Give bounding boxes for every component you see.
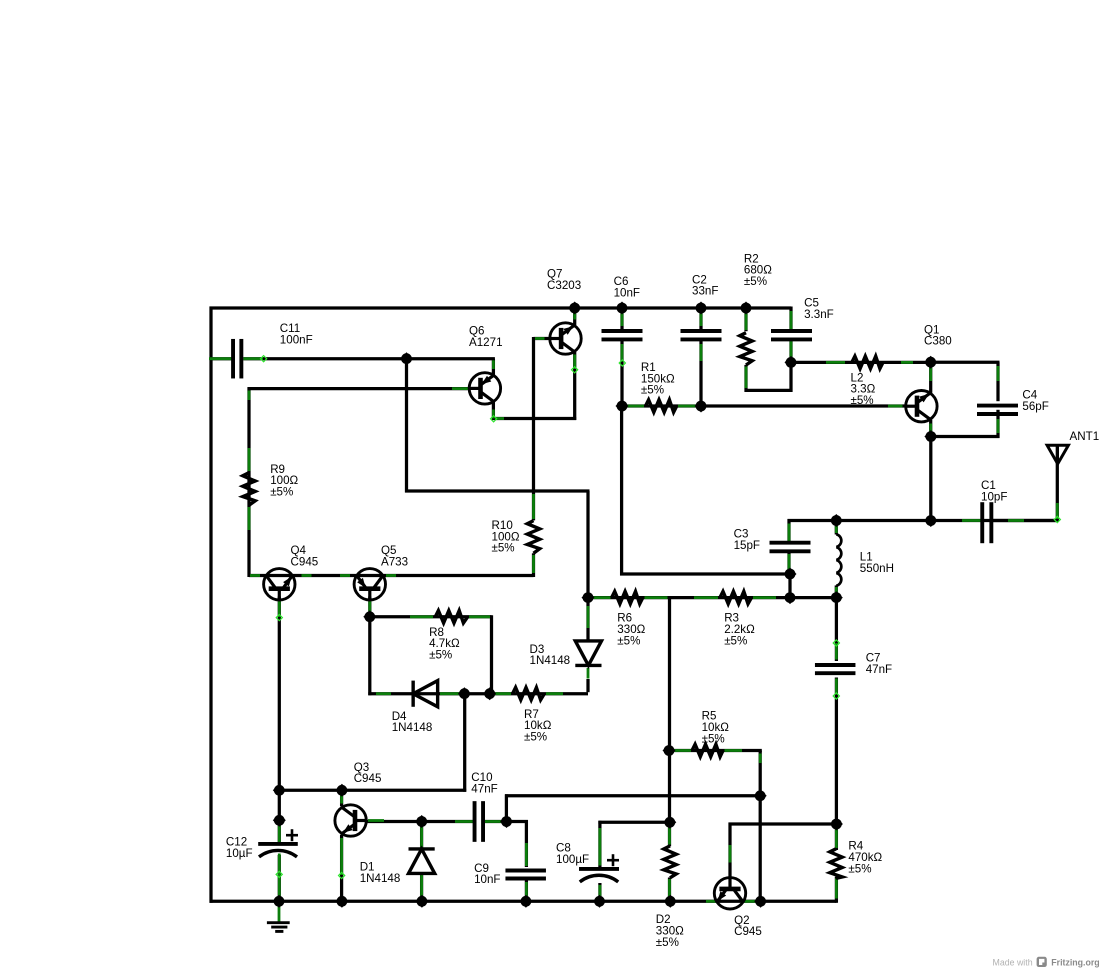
node AA bbox=[273, 814, 286, 827]
wire bbox=[620, 406, 623, 576]
wire bbox=[532, 555, 535, 573]
wire bbox=[535, 337, 545, 340]
wire bbox=[929, 361, 999, 364]
wire bbox=[787, 519, 790, 544]
resistor R4 bbox=[830, 849, 842, 879]
wire bbox=[744, 308, 747, 331]
wire bbox=[622, 404, 906, 407]
wire bbox=[835, 879, 838, 899]
node M bbox=[783, 567, 796, 580]
wire bbox=[787, 552, 790, 576]
wire bbox=[370, 615, 492, 618]
wire bbox=[340, 835, 343, 903]
wire bbox=[668, 878, 671, 903]
node G bbox=[694, 399, 707, 412]
label R4 bbox=[848, 840, 882, 876]
wire bbox=[706, 900, 716, 903]
wire bbox=[835, 829, 838, 848]
wire bbox=[835, 598, 838, 661]
wire bbox=[278, 904, 281, 922]
node S bbox=[483, 687, 496, 700]
wire bbox=[833, 640, 839, 646]
wire bbox=[790, 341, 793, 360]
wire bbox=[788, 574, 791, 599]
wire bbox=[668, 749, 762, 752]
svg-text:1N4148: 1N4148 bbox=[392, 721, 433, 734]
wire bbox=[599, 828, 602, 866]
wire bbox=[1054, 516, 1060, 522]
resistor R7 bbox=[513, 688, 545, 700]
resistor R8 bbox=[435, 611, 467, 623]
node E bbox=[739, 301, 752, 314]
wire bbox=[210, 306, 792, 309]
label C10 bbox=[471, 771, 497, 795]
wire bbox=[276, 871, 282, 877]
label ANT1 bbox=[1070, 430, 1100, 443]
wire bbox=[835, 678, 838, 826]
label R6 bbox=[617, 612, 645, 648]
wire bbox=[386, 574, 396, 577]
wire bbox=[835, 643, 838, 660]
label R8 bbox=[429, 626, 460, 662]
wire bbox=[455, 820, 473, 823]
wire bbox=[248, 507, 251, 530]
wire bbox=[1008, 519, 1024, 522]
label C5 bbox=[804, 297, 834, 321]
svg-text:±5%: ±5% bbox=[617, 634, 640, 647]
wire bbox=[835, 877, 838, 903]
node O bbox=[783, 591, 796, 604]
label Q2 bbox=[734, 914, 762, 938]
wire bbox=[492, 359, 495, 376]
resistor R2 bbox=[740, 333, 752, 365]
wire bbox=[368, 615, 371, 695]
wire bbox=[997, 419, 1000, 433]
wire bbox=[668, 598, 671, 847]
capacitor C6 bbox=[602, 331, 643, 339]
label D2 bbox=[656, 913, 684, 949]
wire bbox=[997, 366, 1000, 381]
wire bbox=[593, 596, 611, 599]
wire bbox=[888, 405, 903, 408]
wire bbox=[248, 387, 470, 390]
wire bbox=[338, 872, 344, 878]
capacitor C2 bbox=[681, 331, 722, 339]
svg-text:550nH: 550nH bbox=[860, 562, 894, 575]
wire bbox=[996, 362, 999, 401]
node P bbox=[830, 591, 843, 604]
node J bbox=[924, 430, 937, 443]
transistor Q5 bbox=[354, 569, 385, 600]
wire bbox=[835, 524, 838, 534]
wire bbox=[759, 751, 762, 903]
node B bbox=[568, 301, 581, 314]
svg-text:±5%: ±5% bbox=[270, 486, 293, 499]
wire bbox=[368, 819, 384, 822]
wire bbox=[621, 312, 624, 326]
svg-text:±5%: ±5% bbox=[702, 732, 725, 745]
label C12 bbox=[226, 836, 253, 860]
svg-text:3.3nF: 3.3nF bbox=[804, 308, 834, 321]
node AF bbox=[593, 895, 606, 908]
label D3 bbox=[530, 643, 571, 667]
wire bbox=[525, 880, 528, 903]
wire bbox=[700, 344, 703, 361]
node AH bbox=[754, 895, 767, 908]
svg-text:10µF: 10µF bbox=[226, 847, 253, 860]
svg-text:±5%: ±5% bbox=[851, 394, 874, 407]
wire bbox=[744, 365, 747, 392]
svg-text:1N4148: 1N4148 bbox=[360, 872, 401, 885]
wire bbox=[490, 416, 496, 422]
wire bbox=[598, 883, 601, 903]
node K bbox=[830, 514, 843, 527]
wire bbox=[420, 822, 423, 851]
wire bbox=[278, 824, 281, 842]
wire bbox=[745, 389, 793, 392]
capacitor C10 bbox=[475, 801, 484, 842]
wire bbox=[996, 410, 999, 438]
inductor L2 (3.3 ohm) bbox=[852, 356, 883, 368]
capacitor C5 bbox=[771, 331, 812, 339]
wire bbox=[209, 307, 212, 903]
wire bbox=[835, 824, 838, 850]
wire bbox=[278, 855, 281, 903]
label R9 bbox=[270, 463, 298, 499]
wire bbox=[620, 340, 623, 408]
svg-text:Made with: Made with bbox=[993, 957, 1033, 967]
node AD bbox=[415, 895, 428, 908]
svg-text:56pF: 56pF bbox=[1022, 400, 1048, 413]
diode D1 bbox=[409, 849, 435, 874]
wire bbox=[210, 900, 837, 903]
wire bbox=[835, 587, 838, 596]
resistor R10 bbox=[527, 521, 539, 554]
svg-text:47nF: 47nF bbox=[866, 663, 892, 676]
capacitor C12 bbox=[258, 829, 298, 857]
wire bbox=[729, 845, 732, 863]
label R7 bbox=[524, 708, 552, 744]
wire bbox=[492, 417, 576, 420]
wire bbox=[586, 598, 589, 641]
wire bbox=[420, 875, 423, 898]
wire bbox=[789, 307, 792, 331]
wire bbox=[493, 692, 512, 695]
node D bbox=[694, 301, 707, 314]
wire bbox=[243, 357, 263, 360]
diode D4 bbox=[413, 681, 438, 707]
wire bbox=[699, 308, 702, 331]
wire bbox=[573, 352, 576, 420]
wire bbox=[668, 828, 671, 845]
wire bbox=[678, 405, 696, 408]
wire bbox=[410, 615, 433, 618]
label C8 bbox=[556, 842, 589, 866]
wire bbox=[495, 417, 504, 420]
svg-text:C945: C945 bbox=[291, 555, 319, 568]
wire bbox=[599, 885, 602, 899]
wire bbox=[791, 361, 931, 364]
wire bbox=[485, 820, 504, 823]
antenna ANT1 bbox=[1047, 445, 1068, 464]
inductor L1 bbox=[836, 534, 841, 586]
wire bbox=[668, 879, 671, 898]
wire bbox=[573, 312, 576, 320]
wire bbox=[835, 679, 838, 695]
wire bbox=[790, 311, 793, 330]
node AB bbox=[272, 895, 285, 908]
wire bbox=[788, 554, 791, 572]
label Q6 bbox=[469, 325, 503, 349]
capacitor C7 bbox=[815, 665, 856, 673]
wire bbox=[901, 361, 913, 364]
wire bbox=[929, 435, 999, 438]
wire bbox=[728, 823, 731, 879]
svg-text:100nF: 100nF bbox=[280, 333, 313, 346]
label C7 bbox=[866, 652, 892, 676]
svg-text:A1271: A1271 bbox=[469, 336, 503, 349]
svg-text:47nF: 47nF bbox=[471, 782, 497, 795]
diode D3 bbox=[575, 641, 601, 666]
node C bbox=[615, 301, 628, 314]
svg-text:±5%: ±5% bbox=[524, 731, 547, 744]
node R bbox=[458, 687, 471, 700]
wire bbox=[368, 597, 371, 619]
label C1 bbox=[981, 479, 1007, 503]
wire bbox=[492, 410, 495, 419]
wire bbox=[278, 854, 281, 899]
label L2 bbox=[851, 371, 876, 407]
node H bbox=[784, 356, 797, 369]
wire bbox=[278, 789, 281, 845]
svg-text:10nF: 10nF bbox=[614, 286, 640, 299]
transistor Q4 bbox=[264, 569, 295, 600]
wire bbox=[645, 596, 668, 599]
capacitor C9 bbox=[505, 871, 546, 879]
wire bbox=[505, 794, 762, 797]
svg-text:ANT1: ANT1 bbox=[1070, 430, 1100, 443]
wire bbox=[725, 749, 743, 752]
wire bbox=[405, 489, 590, 492]
wire bbox=[420, 872, 423, 902]
wire bbox=[278, 789, 466, 792]
wire bbox=[1056, 503, 1059, 519]
wire bbox=[492, 401, 495, 420]
svg-text:C3203: C3203 bbox=[547, 279, 581, 292]
svg-text:±5%: ±5% bbox=[724, 634, 747, 647]
svg-text:100µF: 100µF bbox=[556, 853, 589, 866]
transistor Q7 bbox=[550, 323, 581, 354]
wire bbox=[525, 882, 528, 899]
wire bbox=[420, 827, 423, 849]
wire bbox=[463, 692, 466, 792]
wire bbox=[759, 754, 762, 764]
svg-text:±5%: ±5% bbox=[656, 936, 679, 949]
wire bbox=[247, 387, 250, 577]
wire bbox=[525, 820, 528, 867]
wire bbox=[340, 574, 350, 577]
node Y bbox=[273, 784, 286, 797]
node W bbox=[663, 816, 676, 829]
wire bbox=[788, 519, 1059, 522]
node N bbox=[581, 591, 594, 604]
wire bbox=[929, 366, 932, 381]
wire bbox=[745, 312, 748, 330]
label Q1 bbox=[924, 323, 952, 347]
capacitor C3 bbox=[770, 543, 811, 552]
label C11 bbox=[280, 322, 313, 346]
wire bbox=[248, 448, 251, 471]
wire bbox=[1056, 444, 1059, 522]
wire bbox=[532, 337, 535, 520]
wire bbox=[929, 437, 932, 521]
label R10 bbox=[492, 519, 520, 555]
wire bbox=[729, 822, 838, 825]
label C4 bbox=[1022, 389, 1048, 413]
label R5 bbox=[702, 710, 730, 746]
wire bbox=[211, 357, 232, 360]
label R1 bbox=[641, 361, 675, 397]
wire bbox=[619, 360, 625, 366]
svg-text:10nF: 10nF bbox=[474, 873, 500, 886]
capacitor C1 bbox=[982, 502, 991, 543]
resistor R5 bbox=[692, 744, 723, 756]
label Q5 bbox=[381, 544, 408, 568]
ground bbox=[267, 923, 290, 932]
wire bbox=[699, 340, 702, 408]
capacitor C8 bbox=[579, 854, 619, 882]
wire bbox=[598, 821, 671, 824]
label L1 bbox=[860, 551, 894, 575]
label R3 bbox=[724, 612, 755, 648]
label C6 bbox=[614, 275, 640, 299]
wire bbox=[250, 574, 260, 577]
wire bbox=[492, 360, 495, 369]
svg-text:±5%: ±5% bbox=[744, 275, 767, 288]
wire bbox=[376, 692, 391, 695]
wire bbox=[694, 596, 718, 599]
wire bbox=[833, 693, 839, 699]
resistor R6 bbox=[612, 591, 643, 603]
svg-text:±5%: ±5% bbox=[848, 862, 871, 875]
resistor R3 bbox=[720, 591, 752, 603]
transistor Q1 bbox=[906, 391, 937, 422]
wire bbox=[620, 572, 792, 575]
wire bbox=[826, 361, 845, 364]
wire bbox=[368, 601, 371, 615]
svg-text:C380: C380 bbox=[924, 335, 952, 348]
label C2 bbox=[692, 273, 718, 297]
node AG bbox=[664, 895, 677, 908]
wire bbox=[532, 553, 535, 577]
svg-text:±5%: ±5% bbox=[492, 542, 515, 555]
wire bbox=[405, 359, 408, 493]
wire bbox=[700, 312, 703, 326]
wire bbox=[490, 615, 493, 695]
node I bbox=[924, 356, 937, 369]
wire bbox=[340, 790, 343, 806]
node V bbox=[500, 815, 513, 828]
wire bbox=[571, 367, 577, 373]
wire bbox=[243, 357, 495, 360]
label Q3 bbox=[354, 761, 382, 785]
node D1top bbox=[415, 815, 428, 828]
wire bbox=[276, 614, 282, 620]
node A bbox=[400, 352, 413, 365]
svg-text:C945: C945 bbox=[734, 925, 762, 938]
wire bbox=[929, 420, 932, 438]
wire bbox=[248, 391, 251, 401]
svg-text:Fritzing.org: Fritzing.org bbox=[1051, 957, 1099, 967]
wire bbox=[993, 519, 1058, 522]
label D4 bbox=[392, 710, 433, 734]
transistor Q3 bbox=[335, 805, 366, 836]
svg-text:33nF: 33nF bbox=[692, 285, 718, 298]
wire bbox=[586, 491, 589, 598]
wire bbox=[789, 340, 792, 364]
wire bbox=[573, 308, 576, 326]
wire bbox=[525, 843, 528, 866]
wire bbox=[745, 367, 748, 389]
wire bbox=[368, 692, 588, 695]
node T bbox=[662, 744, 675, 757]
wire bbox=[260, 356, 266, 362]
wire bbox=[588, 596, 838, 599]
node X bbox=[830, 817, 843, 830]
wire bbox=[505, 794, 508, 823]
svg-text:15pF: 15pF bbox=[734, 539, 760, 552]
node F bbox=[615, 399, 628, 412]
label D1 bbox=[360, 861, 401, 885]
wire bbox=[586, 679, 589, 692]
wire bbox=[627, 405, 645, 408]
wire bbox=[340, 838, 343, 875]
wire bbox=[302, 574, 312, 577]
wire bbox=[469, 615, 490, 618]
wire bbox=[835, 521, 838, 535]
wire bbox=[929, 424, 932, 434]
wire bbox=[532, 494, 535, 519]
wire bbox=[546, 692, 563, 695]
svg-text:±5%: ±5% bbox=[641, 384, 664, 397]
wire bbox=[440, 692, 462, 695]
wire bbox=[573, 355, 576, 370]
wire bbox=[789, 362, 792, 392]
label R2 bbox=[744, 252, 772, 288]
resistor R9 bbox=[243, 473, 255, 506]
label C9 bbox=[474, 862, 500, 886]
node Q bbox=[363, 610, 376, 623]
resistor D2 (330 ohm) bbox=[664, 846, 676, 878]
resistor R1 bbox=[646, 400, 677, 412]
wire bbox=[452, 387, 469, 390]
node Z bbox=[335, 784, 348, 797]
wire bbox=[587, 606, 590, 628]
label Q7 bbox=[547, 268, 581, 292]
wire bbox=[366, 820, 474, 823]
transistor Q6 bbox=[469, 373, 500, 404]
svg-text:C945: C945 bbox=[354, 772, 382, 785]
capacitor C11 bbox=[233, 339, 241, 379]
transistor Q2 bbox=[714, 878, 745, 909]
wire bbox=[249, 574, 534, 577]
svg-text:±5%: ±5% bbox=[429, 649, 452, 662]
wire bbox=[753, 596, 776, 599]
wire bbox=[278, 601, 281, 617]
wire bbox=[744, 900, 757, 903]
wire bbox=[962, 519, 981, 522]
wire bbox=[835, 585, 838, 599]
